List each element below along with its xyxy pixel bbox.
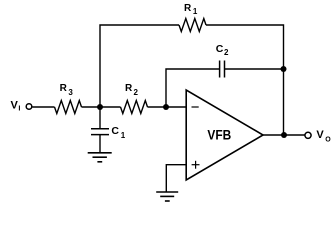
node B: R2/C2/op-amp junction	[163, 104, 169, 110]
svg-text:1: 1	[193, 7, 198, 16]
ground (op-amp +)	[156, 191, 178, 193]
wire: top feedback loop left (vertical from node A up, then right to R1)	[100, 25, 179, 107]
wire: C2 right to rail	[225, 68, 284, 70]
wire: non-inverting input to ground	[166, 165, 186, 192]
wire: R3 to R2	[82, 106, 121, 108]
svg-text:V: V	[316, 129, 324, 141]
svg-text:1: 1	[121, 131, 126, 140]
terminal VI	[26, 104, 32, 110]
resistor R1	[179, 19, 206, 32]
svg-text:V: V	[11, 100, 19, 112]
wire: op-amp output to terminal	[263, 134, 305, 136]
wire: node A down to C1	[99, 107, 101, 129]
svg-text:2: 2	[224, 48, 229, 57]
node: output junction	[281, 132, 287, 138]
node: C2/rail junction	[281, 66, 287, 72]
svg-text:O: O	[325, 137, 331, 144]
capacitor C2	[219, 61, 221, 78]
svg-text:R: R	[60, 83, 68, 94]
svg-text:C: C	[216, 43, 224, 55]
wire: C2 branch from node B up and right	[166, 69, 220, 107]
wire: R2 to op-amp inverting input	[148, 106, 187, 108]
wire: input to R3	[32, 106, 54, 108]
svg-text:R: R	[184, 3, 192, 14]
op-amp U1 (VFB)	[186, 90, 263, 180]
terminal VO	[305, 132, 311, 138]
svg-text:3: 3	[68, 88, 73, 97]
svg-text:2: 2	[134, 88, 139, 97]
node A: R3/R2/C1 junction	[97, 104, 103, 110]
wire: C1 to ground	[99, 135, 101, 153]
resistor R2	[121, 101, 148, 114]
capacitor C1	[91, 128, 109, 130]
resistor R3	[55, 101, 82, 114]
svg-text:VFB: VFB	[207, 127, 231, 143]
wire: top feedback loop right + right rail down to output node	[206, 25, 284, 135]
svg-text:I: I	[18, 104, 20, 113]
ground (C1)	[88, 152, 112, 154]
svg-text:R: R	[125, 83, 133, 94]
svg-text:C: C	[111, 125, 119, 137]
